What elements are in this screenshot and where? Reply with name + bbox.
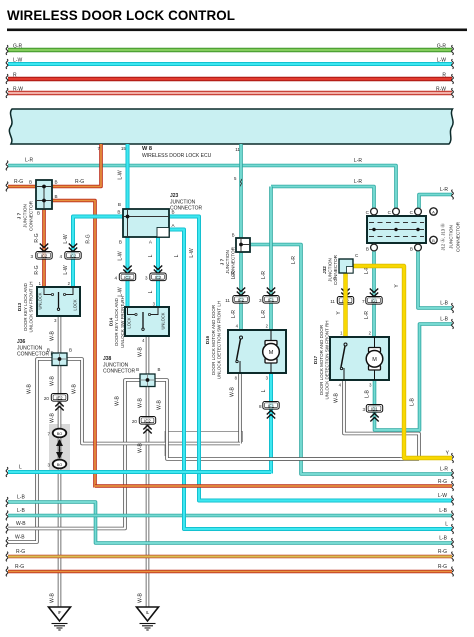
- svg-text:L-R: L-R: [440, 187, 448, 193]
- svg-text:L-R: L-R: [231, 310, 237, 318]
- svg-text:B: B: [117, 210, 120, 215]
- ground IF: [49, 607, 71, 621]
- junction dot J7 right: [239, 243, 243, 247]
- svg-text:BO: BO: [57, 463, 63, 467]
- motor M of D16: [265, 341, 277, 346]
- connector break left of L-B 1: [6, 497, 8, 507]
- svg-text:L: L: [148, 254, 154, 257]
- connector break right of L-B upper: [452, 303, 454, 313]
- connector break right of R: [452, 74, 454, 84]
- svg-text:J36: J36: [17, 339, 26, 345]
- svg-text:R-W: R-W: [13, 87, 23, 93]
- svg-text:W-B: W-B: [138, 347, 144, 357]
- svg-text:L-R: L-R: [231, 271, 237, 279]
- svg-text:WIRELESS DOOR LOCK CONTROL: WIRELESS DOOR LOCK CONTROL: [7, 8, 235, 23]
- svg-text:D13: D13: [17, 302, 22, 311]
- connector arrows 3 IF1: [267, 288, 275, 296]
- svg-text:8: 8: [259, 404, 262, 409]
- svg-text:B: B: [55, 194, 58, 199]
- svg-text:7: 7: [47, 432, 50, 437]
- wire W-B D16 switch to J36 loop: [238, 373, 242, 444]
- svg-text:L-R: L-R: [354, 158, 362, 164]
- svg-text:J 7: J 7: [220, 258, 225, 265]
- D17 switch bottom stub: [343, 368, 345, 380]
- connector 3 IC2 box: [36, 252, 52, 260]
- wire L-W (top bus): [8, 62, 452, 66]
- svg-text:CONNECTOR: CONNECTOR: [103, 369, 136, 375]
- D14 switch lever: [142, 312, 144, 328]
- wire W-B D14 to ground IL: [146, 336, 150, 607]
- connector break left of R: [6, 74, 8, 84]
- svg-text:R-G: R-G: [438, 479, 447, 485]
- connector break left of L-W: [6, 59, 8, 69]
- svg-text:L-W: L-W: [63, 265, 69, 274]
- svg-text:IF1: IF1: [268, 297, 275, 302]
- wire L D16 motor drop: [269, 373, 273, 474]
- svg-text:R-G: R-G: [16, 549, 25, 555]
- svg-text:IC2: IC2: [41, 253, 48, 258]
- junction dot J7 lower: [42, 199, 46, 203]
- connector break right of G-R: [452, 45, 454, 55]
- svg-text:R: R: [442, 73, 446, 79]
- wire L-R drop to D16 pin2: [269, 187, 273, 331]
- body connector shade strip: [49, 424, 70, 470]
- svg-text:4: 4: [59, 254, 62, 259]
- wire G-R (top bus): [8, 48, 452, 53]
- svg-text:J12 Ⓐ, J13 Ⓑ: J12 Ⓐ, J13 Ⓑ: [440, 223, 447, 251]
- svg-text:UNLOCK SW FRONT LH: UNLOCK SW FRONT LH: [28, 282, 33, 333]
- J7 right internal bus lines: [240, 238, 242, 252]
- junction connector J38 body: [140, 374, 155, 387]
- svg-text:7: 7: [362, 299, 365, 304]
- svg-text:W-B: W-B: [50, 593, 56, 603]
- svg-text:BO: BO: [57, 432, 63, 436]
- connector break right of R-G: [452, 481, 454, 491]
- svg-text:JUNCTION: JUNCTION: [328, 258, 333, 282]
- svg-text:R-G: R-G: [15, 564, 24, 570]
- svg-text:B: B: [366, 247, 369, 252]
- svg-text:W-B: W-B: [115, 396, 121, 406]
- svg-text:B: B: [55, 180, 58, 185]
- svg-text:L-B: L-B: [439, 536, 447, 542]
- body connector BO oval upper: [53, 429, 67, 438]
- J12 top pin C1 circle: [373, 212, 375, 217]
- svg-text:CONNECTOR: CONNECTOR: [29, 200, 34, 231]
- svg-text:L-W: L-W: [13, 58, 22, 64]
- svg-text:R-G: R-G: [14, 179, 23, 185]
- svg-text:CONNECTOR B: CONNECTOR B: [17, 352, 55, 358]
- junction connector J7 (left) body: [36, 180, 52, 209]
- junction connector J7 (right) body: [236, 238, 250, 252]
- connector break left of L-R: [6, 161, 8, 171]
- svg-text:3: 3: [362, 407, 365, 412]
- D16 switch bottom stub: [239, 361, 241, 373]
- svg-text:L-B: L-B: [365, 389, 371, 397]
- D14 left contact: [128, 307, 135, 315]
- connector 11 IG2 box: [337, 297, 353, 305]
- wire L-R from J13 to D17 pin2: [372, 251, 376, 337]
- svg-text:L-W: L-W: [118, 251, 124, 260]
- svg-text:UNLOCK: UNLOCK: [38, 292, 43, 309]
- svg-text:4: 4: [114, 276, 117, 281]
- connector 3 IC2 box (middle): [150, 273, 166, 281]
- svg-text:CONNECTOR: CONNECTOR: [170, 206, 203, 212]
- wire L-R upper-middle to J12 left pin: [271, 187, 374, 209]
- connector 4 IC2 box (middle): [119, 273, 135, 281]
- connector arrows 8 IF1 up: [267, 411, 275, 419]
- svg-text:B: B: [410, 247, 413, 252]
- connector arrows 20 IE2 up: [55, 403, 63, 411]
- svg-text:W-B: W-B: [138, 593, 144, 603]
- wire Y from J32 bottom to D17 pin1: [343, 273, 347, 337]
- wire W-B J38 left loop to left edge: [8, 380, 140, 529]
- svg-text:20: 20: [132, 419, 138, 424]
- connector 20 IE2 box: [51, 394, 67, 402]
- connector break left of W-B 2: [6, 537, 8, 547]
- svg-text:W-B: W-B: [50, 331, 56, 341]
- wire W-B D13 to ground IF: [58, 316, 62, 607]
- wire L-W from D13 up to J23 row then down right side: [73, 217, 452, 501]
- D17 switch lever: [341, 346, 345, 367]
- wire W-B overpass segment: [250, 457, 400, 461]
- connector break left of R-G 2: [6, 567, 8, 577]
- connector arrows 3 IC2: [40, 244, 48, 252]
- svg-text:IC2: IC2: [124, 275, 131, 280]
- svg-text:L: L: [19, 465, 22, 471]
- svg-text:B: B: [232, 233, 235, 238]
- svg-text:R-G: R-G: [438, 549, 447, 555]
- svg-text:B: B: [136, 367, 139, 372]
- D16 switch lever: [237, 339, 241, 360]
- mating arrow up: [59, 446, 61, 451]
- wire W-B J36 right loop to D16: [67, 359, 240, 444]
- svg-text:M: M: [269, 350, 274, 356]
- svg-text:L-R: L-R: [440, 467, 448, 473]
- J12/J13 middle bus: [369, 229, 424, 231]
- D13 switch lever: [58, 292, 60, 308]
- svg-text:L-W: L-W: [189, 248, 195, 257]
- J38 cross lines: [140, 379, 155, 381]
- svg-text:7: 7: [97, 146, 100, 151]
- svg-text:DOOR KEY LOCK AND: DOOR KEY LOCK AND: [114, 297, 119, 345]
- svg-text:L: L: [445, 522, 448, 528]
- svg-text:UNLOCK: UNLOCK: [161, 312, 166, 329]
- J12 top pin C2 circle: [395, 212, 397, 217]
- svg-text:W-B: W-B: [27, 384, 33, 394]
- svg-text:L-R: L-R: [261, 310, 267, 318]
- body connector BO oval lower: [53, 460, 67, 469]
- svg-text:B: B: [118, 202, 121, 207]
- svg-text:DOOR LOCK MOTOR AND DOOR: DOOR LOCK MOTOR AND DOOR: [319, 324, 324, 395]
- svg-text:M: M: [372, 357, 377, 363]
- svg-text:IG1: IG1: [371, 298, 378, 303]
- svg-text:JUNCTION: JUNCTION: [225, 250, 230, 274]
- connector break right of L-R: [452, 190, 454, 200]
- svg-text:B: B: [69, 348, 72, 353]
- J12 side marker circle: [430, 208, 437, 215]
- svg-text:JUNCTION: JUNCTION: [23, 204, 28, 228]
- connector 20 IC2 box: [139, 417, 155, 425]
- svg-text:W-B: W-B: [16, 521, 26, 527]
- svg-text:L-B: L-B: [440, 317, 448, 323]
- svg-text:UNLOCK DETECTION SW FRONT RH: UNLOCK DETECTION SW FRONT RH: [324, 321, 329, 400]
- title underline rule: [7, 29, 467, 32]
- connector break right of L-W: [452, 59, 454, 69]
- svg-text:IF: IF: [58, 610, 62, 615]
- wire boundary thin line: [165, 432, 243, 457]
- svg-text:WIRELESS DOOR LOCK ECU: WIRELESS DOOR LOCK ECU: [142, 153, 212, 159]
- svg-text:W-B: W-B: [50, 376, 56, 386]
- wire L from J23 notch to right drop (exit L): [158, 230, 452, 530]
- svg-text:B: B: [29, 180, 32, 185]
- connector 4 IC2 box (D13 side): [65, 252, 81, 260]
- connector break left of W-B 1: [6, 524, 8, 534]
- wire L-B D17 motor to right edge: [375, 324, 453, 430]
- svg-text:11: 11: [225, 298, 230, 303]
- connector break right of L-B low: [452, 538, 454, 548]
- svg-text:R-G: R-G: [86, 234, 92, 243]
- svg-text:JUNCTION: JUNCTION: [449, 225, 454, 249]
- connector break right of L-B 2: [452, 511, 454, 521]
- connector arrows 3 IC2 (middle): [154, 266, 162, 274]
- wire W-B J36 left loop to left edge: [8, 359, 52, 542]
- ground IL: [137, 607, 159, 621]
- wire R-G horizontal run to right edge: [95, 484, 452, 488]
- svg-text:L-B: L-B: [410, 397, 416, 405]
- mating arrow down: [59, 449, 61, 452]
- svg-text:W-B: W-B: [50, 413, 56, 423]
- D17 switch contact circle: [344, 343, 347, 346]
- svg-text:B: B: [432, 238, 435, 243]
- svg-text:L-W: L-W: [63, 234, 69, 243]
- svg-text:R: R: [13, 73, 17, 79]
- wire Y from J32 right to right edge: [353, 266, 452, 458]
- connector break left of G-R: [6, 45, 8, 55]
- connector break right of R-G 2: [452, 567, 454, 577]
- svg-text:L-B: L-B: [440, 301, 448, 307]
- wire R-W (top bus): [8, 91, 452, 95]
- J36 cross lines: [52, 358, 67, 360]
- svg-text:W-B: W-B: [138, 443, 144, 453]
- svg-text:W-B: W-B: [15, 535, 25, 541]
- connector arrows 11 IF2: [237, 288, 245, 296]
- junction dot J12 b: [394, 228, 397, 231]
- wire L horizontal run to left edge: [8, 470, 271, 474]
- D16 switch contact circle: [240, 336, 243, 339]
- connector break left of L-B 2: [6, 511, 8, 521]
- wire R-G tan: [8, 555, 452, 559]
- wire R-G orange: [8, 570, 452, 574]
- connector arrows 4 IC2 (middle): [123, 266, 131, 274]
- svg-text:L: L: [148, 290, 154, 293]
- svg-text:L-B: L-B: [17, 495, 25, 501]
- svg-text:L-W: L-W: [118, 170, 124, 179]
- J13 side marker circle: [430, 236, 437, 243]
- svg-text:W-B: W-B: [230, 387, 236, 397]
- wire L-B 2 straight: [8, 514, 452, 518]
- connector 3 ID1 box: [366, 405, 382, 413]
- connector 3 IF1 box: [263, 296, 279, 304]
- svg-text:IC2: IC2: [155, 275, 162, 280]
- wire L-B from J13 to right edge: [418, 251, 452, 308]
- connector break left of R-G 1: [6, 552, 8, 562]
- D14 right contact: [151, 307, 158, 315]
- svg-text:3: 3: [145, 276, 148, 281]
- svg-text:ID1: ID1: [371, 406, 378, 411]
- wire L-R ECU pin 11 through J7 right to D16 pin4: [239, 144, 243, 330]
- J32 notch: [347, 267, 354, 274]
- junction connector J36 body: [52, 353, 67, 366]
- svg-text:J 7: J 7: [17, 212, 22, 219]
- wire L from J23 notch down to D14: [156, 230, 160, 308]
- J23 internal bus lines: [127, 209, 129, 237]
- connector arrows 11 IG2: [341, 289, 349, 297]
- svg-text:G-R: G-R: [13, 44, 23, 50]
- J13 bottom pin B1 circle: [373, 243, 375, 248]
- connector 7 IG1 box: [366, 297, 382, 305]
- svg-text:R-G: R-G: [438, 564, 447, 570]
- connector 11 IF2 box: [233, 296, 249, 304]
- switch D13 door key lock/unlock front LH body: [37, 287, 80, 316]
- wire W-B J38 right loop to D17: [155, 380, 419, 459]
- svg-text:J38: J38: [103, 356, 112, 362]
- connector break left of L: [6, 467, 8, 477]
- svg-text:D17: D17: [313, 355, 318, 364]
- J12 top pin C3 circle: [417, 212, 419, 217]
- svg-text:W-B: W-B: [334, 393, 340, 403]
- D13 right contact: [66, 287, 73, 295]
- junction dot J12 a: [372, 228, 375, 231]
- wire R-G J7 bottom branch to D13: [42, 209, 46, 287]
- switch/motor D16 door lock motor front LH body: [228, 330, 286, 373]
- J12/J13 dashed row lower: [369, 236, 424, 238]
- wire R (top bus): [8, 77, 452, 81]
- wire L-R from right connector to J13 right pin: [419, 195, 452, 209]
- svg-text:J23: J23: [170, 193, 179, 199]
- svg-text:L-W: L-W: [118, 287, 124, 296]
- svg-text:R-G: R-G: [75, 179, 84, 185]
- svg-text:G-R: G-R: [437, 44, 447, 50]
- svg-text:L-R: L-R: [364, 311, 370, 319]
- svg-text:L-B: L-B: [17, 508, 25, 514]
- switch/motor D17 door lock motor front RH body: [330, 337, 389, 380]
- connector break right of L: [452, 524, 454, 534]
- svg-text:IF1: IF1: [268, 403, 275, 408]
- J7 internal bus line: [43, 187, 45, 210]
- junction dot J7 upper: [42, 185, 46, 189]
- connector arrows 7 IG1: [370, 289, 378, 297]
- junction dot J23: [126, 215, 130, 219]
- svg-text:D16: D16: [205, 335, 210, 344]
- junction dot J38: [146, 378, 150, 382]
- connector break left of R-W: [6, 88, 8, 98]
- svg-text:IF2: IF2: [238, 297, 245, 302]
- connector break right of R-G 1: [452, 552, 454, 562]
- connector arrows 3 ID1 up: [370, 414, 378, 422]
- svg-text:IC2: IC2: [70, 253, 77, 258]
- svg-text:B: B: [158, 367, 161, 372]
- connector arrows 4 IC2: [69, 244, 77, 252]
- svg-text:3: 3: [259, 298, 262, 303]
- wire L-W ECU pin 15 through J23 down to D14: [126, 144, 130, 307]
- wire R-G ECU pin 7 to J7 junction row: [8, 144, 101, 187]
- junction dot J12 c: [416, 228, 419, 231]
- svg-text:IE2: IE2: [56, 395, 63, 400]
- connector 8 IF1 box (lower): [263, 402, 279, 410]
- svg-text:B: B: [119, 240, 122, 245]
- J23 notch: [157, 228, 169, 238]
- svg-text:IC2: IC2: [144, 418, 151, 423]
- connector break right of L-R lower: [452, 469, 454, 479]
- junction connector J32 body: [339, 259, 353, 273]
- svg-text:11: 11: [330, 299, 335, 304]
- svg-text:W 8: W 8: [142, 146, 152, 152]
- junction dot J36: [58, 357, 62, 361]
- connector break right of L-W: [452, 496, 454, 506]
- svg-text:D14: D14: [109, 317, 114, 326]
- svg-text:UNLOCK DETECTION SW FRONT LH: UNLOCK DETECTION SW FRONT LH: [216, 301, 221, 379]
- svg-text:L-R: L-R: [354, 179, 362, 185]
- wire L-R J7 right exit to right edge: [250, 245, 452, 475]
- svg-text:L: L: [261, 389, 267, 392]
- connector break right of R-W: [452, 88, 454, 98]
- svg-text:R-G: R-G: [34, 265, 40, 274]
- svg-text:R-W: R-W: [436, 87, 446, 93]
- svg-text:B: B: [37, 211, 40, 216]
- svg-text:3: 3: [30, 254, 33, 259]
- junction connector J12/J13 body: [367, 216, 426, 243]
- svg-text:L-B: L-B: [439, 508, 447, 514]
- connector break right of Y: [452, 453, 454, 463]
- svg-text:DOOR LOCK MOTOR AND DOOR: DOOR LOCK MOTOR AND DOOR: [211, 304, 216, 375]
- ECU W8 wireless door lock ECU body: [9, 109, 453, 144]
- svg-text:LOCK: LOCK: [73, 299, 78, 310]
- svg-text:DOOR KEY LOCK AND: DOOR KEY LOCK AND: [23, 282, 28, 330]
- svg-text:20: 20: [44, 396, 50, 401]
- svg-text:3: 3: [47, 463, 50, 468]
- svg-text:L-R: L-R: [291, 256, 297, 264]
- svg-text:W-B: W-B: [138, 398, 144, 408]
- svg-text:11: 11: [235, 147, 240, 152]
- svg-text:W-B: W-B: [157, 400, 163, 410]
- svg-text:A: A: [432, 210, 435, 215]
- J12/J13 dashed row upper: [369, 222, 424, 224]
- svg-text:CONNECTOR: CONNECTOR: [456, 221, 461, 252]
- motor M of D17: [369, 348, 381, 353]
- D13 left contact: [44, 287, 51, 295]
- wire L-B 1 left stepped: [8, 502, 452, 543]
- svg-text:L: L: [174, 254, 180, 257]
- svg-text:J32: J32: [322, 266, 327, 274]
- wire R-G J7 lower branch down left side: [52, 201, 95, 488]
- svg-text:L-R: L-R: [261, 271, 267, 279]
- svg-text:R-G: R-G: [34, 233, 40, 242]
- connector arrows 20 IC2 up: [143, 426, 151, 434]
- junction connector J23 body: [123, 209, 169, 237]
- svg-text:L-R: L-R: [25, 158, 33, 164]
- svg-text:L-W: L-W: [437, 58, 446, 64]
- J13 bottom pin B2 circle: [417, 243, 419, 248]
- wire L-R from left connector to J12 middle pin: [8, 166, 396, 209]
- switch D14 door key lock/unlock front RH body: [125, 307, 169, 336]
- wire W-B D17 switch to J38 loop: [344, 380, 419, 459]
- connector break right of L-B from D17: [452, 319, 454, 329]
- svg-text:L-W: L-W: [438, 493, 447, 499]
- svg-text:W-B: W-B: [72, 384, 78, 394]
- svg-text:LOCK: LOCK: [127, 317, 132, 328]
- connector break left of R-G: [6, 182, 8, 192]
